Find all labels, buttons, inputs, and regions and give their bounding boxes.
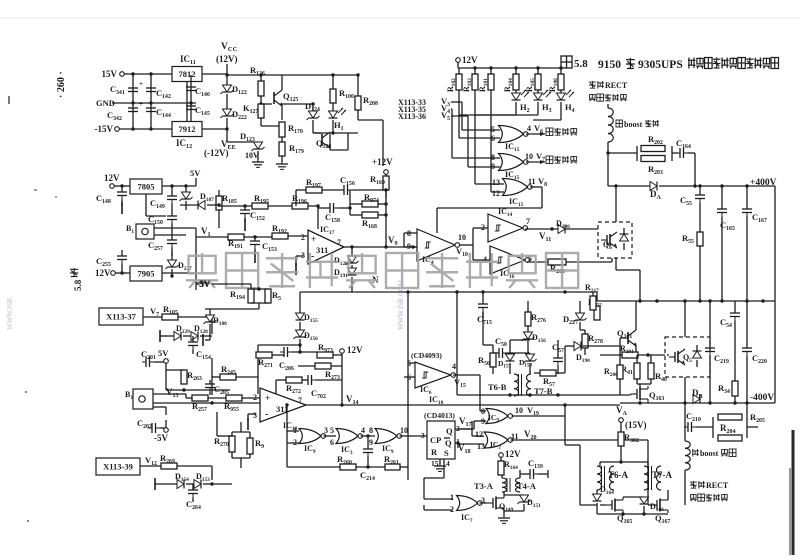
wire (597, 512, 668, 515)
gate IC15a (491, 123, 545, 143)
capacitor C164 (676, 138, 695, 186)
wire (258, 343, 302, 352)
resistor R206b (604, 346, 623, 395)
wire (244, 235, 272, 238)
inverter IC4 (404, 229, 468, 266)
svg-text:311: 311 (316, 245, 328, 255)
resistor R168 (350, 212, 386, 230)
wire (119, 127, 172, 130)
gate IC7 (450, 493, 487, 524)
transistor Q161 (617, 301, 637, 352)
wire (153, 406, 166, 408)
label 整流桥正极 (589, 94, 627, 101)
wire (407, 292, 409, 480)
resistor R191 (228, 234, 244, 250)
gate IC3 (330, 426, 375, 456)
title text (598, 58, 778, 72)
led H2 (512, 90, 530, 115)
wire (258, 358, 276, 394)
svg-text:7905: 7905 (138, 269, 155, 279)
svg-text:+400V: +400V (750, 178, 777, 188)
net VEE (204, 129, 259, 160)
inverter IC6 (404, 359, 466, 396)
capacitor C206 (279, 347, 317, 372)
wire (475, 114, 538, 116)
resistor R269 (160, 453, 212, 480)
label IC18 (283, 421, 298, 432)
wire (202, 73, 229, 76)
svg-text:-15V: -15V (95, 124, 114, 134)
svg-text:8: 8 (491, 153, 495, 162)
wire (154, 228, 196, 235)
wire (483, 312, 530, 347)
svg-text:9305UPS: 9305UPS (638, 59, 683, 71)
svg-text:15V: 15V (102, 69, 118, 79)
terminal 12V c (340, 345, 363, 355)
resistor R34 (718, 330, 738, 403)
gate IC9a (293, 426, 336, 455)
capacitor C148 (96, 186, 127, 214)
diode D157 (498, 346, 515, 374)
capacitor C142 (146, 74, 171, 129)
resistor R270 (214, 436, 235, 452)
svg-text:RECT: RECT (605, 81, 628, 90)
capacitor C341 (110, 74, 143, 129)
transformer T6-A (597, 466, 629, 490)
svg-text:T6-A: T6-A (608, 470, 629, 480)
wire (459, 90, 500, 138)
capacitor C205 (205, 380, 229, 396)
wire (186, 82, 188, 121)
capacitor C54 (720, 301, 740, 330)
wire (217, 412, 232, 436)
wire (288, 235, 308, 237)
svg-text:+: + (311, 234, 316, 244)
resistor R55 (682, 232, 703, 303)
wire (614, 184, 617, 222)
wire (285, 403, 299, 467)
svg-text:(12V): (12V) (216, 54, 238, 64)
transformer T7-A (644, 466, 673, 490)
wire (600, 338, 628, 346)
svg-text:10: 10 (400, 426, 408, 435)
svg-text:7: 7 (526, 217, 530, 226)
wire (491, 90, 504, 192)
resistor R127 (243, 96, 264, 126)
capacitor C165 (717, 186, 735, 301)
net 5V b (158, 348, 169, 390)
diode D130 (556, 219, 570, 234)
svg-text:3: 3 (253, 411, 257, 420)
svg-text:CP: CP (430, 435, 441, 445)
resistor R105b (162, 304, 212, 334)
node X113-33 (398, 96, 500, 130)
svg-text:5: 5 (330, 426, 334, 435)
resistor R164 (498, 460, 518, 475)
wire (344, 245, 417, 248)
resistor R273 (298, 363, 342, 381)
net V14 (346, 394, 359, 406)
resistor R302 (618, 432, 639, 462)
wire (207, 203, 221, 206)
label IC15b (505, 170, 520, 181)
gate IC15b (491, 151, 545, 171)
wire (459, 228, 490, 260)
label IC15a (505, 142, 520, 153)
net +12V (372, 157, 393, 176)
svg-text:S: S (444, 448, 449, 458)
capacitor C154 (188, 336, 211, 361)
capacitor C144 (146, 104, 171, 119)
capacitor C702 (304, 366, 342, 400)
net V20 (524, 429, 537, 441)
svg-text:+: + (139, 100, 143, 108)
resistor R194 (230, 289, 254, 303)
label CD4013 (424, 411, 455, 420)
wire (600, 460, 648, 466)
resistor R257 (186, 395, 226, 413)
capacitor C156 (340, 175, 386, 195)
wire (296, 256, 303, 275)
resistor R260 (287, 454, 385, 470)
label 图5.8 side (70, 268, 83, 291)
diode D128 (183, 324, 212, 341)
gate IC9b (369, 426, 410, 455)
resistor R103 (462, 68, 478, 92)
terminal GND (96, 98, 196, 108)
resistor R101 (478, 68, 494, 92)
mosfet Q149 (487, 495, 514, 523)
resistor R261 (384, 454, 408, 470)
wire (212, 483, 232, 485)
resistor R201 (600, 344, 667, 358)
wire (162, 184, 196, 187)
svg-text:(-12V): (-12V) (204, 148, 229, 158)
wire (607, 104, 609, 108)
inverter IC16 (483, 246, 532, 280)
svg-text:6: 6 (330, 438, 334, 447)
svg-text:(CD4013): (CD4013) (424, 411, 455, 420)
wire (341, 380, 343, 405)
svg-text:12: 12 (492, 189, 500, 198)
svg-text:2: 2 (301, 233, 305, 242)
wire (296, 190, 388, 247)
resistor R203 (641, 156, 665, 176)
capacitor C715 (477, 292, 492, 326)
wire (219, 204, 252, 207)
diode D158 (519, 352, 537, 374)
resistor R206 (548, 258, 612, 275)
wire (774, 186, 776, 403)
resistor R106 (548, 68, 564, 92)
specks (8, 96, 57, 522)
wire (684, 403, 686, 427)
svg-text:-: - (265, 409, 268, 420)
resistor R170 (279, 122, 303, 137)
svg-text:+: + (265, 393, 270, 403)
wire (458, 429, 484, 444)
svg-text:11: 11 (528, 177, 536, 186)
transformer T6-B (488, 374, 531, 396)
net -5V c (196, 279, 251, 289)
op-amp IC17b 311 (253, 388, 306, 422)
wire (124, 72, 193, 75)
capacitor C255 (96, 250, 127, 273)
capacitor C158 (318, 203, 350, 224)
resistor R50 (478, 345, 496, 367)
svg-text:5: 5 (491, 125, 495, 134)
svg-text:10V: 10V (245, 151, 259, 160)
resistor R195 (252, 193, 269, 209)
resistor R974 (350, 192, 386, 207)
wire (475, 90, 504, 184)
wire (437, 187, 542, 233)
pin labels (421, 424, 460, 468)
wire (308, 204, 320, 229)
svg-text:2: 2 (450, 505, 454, 514)
svg-text:T4-A: T4-A (517, 481, 537, 491)
svg-text:Q: Q (446, 426, 453, 436)
svg-text:3: 3 (324, 426, 328, 435)
svg-text:7912: 7912 (179, 124, 196, 134)
net -5V (196, 279, 211, 289)
zener D122 (221, 75, 247, 109)
resistor R202 (641, 134, 665, 152)
mosfet Q165 (600, 497, 632, 525)
wire (596, 292, 598, 301)
diode D187 (180, 192, 214, 210)
regulator IC11 7812 (172, 54, 202, 82)
zener D123 (227, 131, 265, 167)
svg-text:12V: 12V (104, 173, 120, 183)
capacitor C210 (684, 411, 713, 432)
wire (533, 112, 561, 120)
wire (456, 292, 458, 395)
diode D153 (186, 472, 214, 489)
diode D120 (334, 247, 359, 267)
label T7-B (534, 386, 553, 396)
resistor R197 (296, 177, 344, 193)
ground (155, 478, 177, 490)
resistor R277 (588, 298, 602, 320)
svg-text:12V: 12V (505, 449, 521, 459)
resistor R57 (534, 370, 565, 388)
wire (672, 152, 678, 154)
svg-text:10: 10 (525, 152, 533, 161)
label 正充电器 (540, 128, 577, 136)
svg-text:WWW.JSR.COM: WWW.JSR.COM (397, 279, 405, 330)
svg-text:12: 12 (475, 430, 483, 439)
svg-text:boost: boost (624, 120, 643, 129)
label +400V (750, 178, 777, 188)
net V17 (455, 416, 472, 429)
page number (56, 71, 67, 98)
gate IC15c (492, 176, 547, 198)
svg-text:5.8: 5.8 (73, 279, 83, 291)
svg-text:9: 9 (491, 162, 495, 171)
net V18 (455, 441, 471, 455)
wire (300, 290, 597, 293)
sensor B1 (126, 224, 154, 239)
capacitor C145 (186, 102, 210, 117)
wire (227, 75, 358, 135)
resistor R276 (525, 301, 546, 332)
wire (162, 228, 196, 290)
svg-text:7: 7 (337, 238, 341, 247)
zener D222 (221, 109, 247, 129)
svg-text:5V: 5V (190, 168, 201, 178)
svg-text:4: 4 (446, 459, 450, 468)
svg-text:12V: 12V (95, 268, 111, 278)
label CD4093 (411, 351, 442, 360)
label 来自RECT b (690, 481, 729, 490)
inverter IC14 (481, 207, 530, 242)
regulator IC12 7912 (172, 122, 202, 151)
wire (457, 393, 630, 396)
svg-text:R: R (431, 447, 438, 457)
resistor R100 (330, 73, 354, 103)
resistor R40 (637, 355, 667, 384)
svg-text:1: 1 (450, 493, 454, 502)
capacitor C57 (552, 342, 564, 374)
svg-text:RECT: RECT (706, 481, 729, 490)
resistor R973 (317, 342, 342, 366)
capacitor C201 (141, 349, 166, 367)
svg-text:12V: 12V (347, 345, 363, 355)
diode D227b (166, 252, 193, 278)
diode D166 (623, 497, 664, 514)
scan edge (789, 430, 795, 555)
wire (306, 403, 620, 406)
node X113-37 (99, 306, 162, 325)
watermark (186, 253, 578, 288)
capacitor C342 (107, 100, 143, 122)
svg-text:WWW.JSR: WWW.JSR (6, 297, 14, 330)
svg-text:2: 2 (253, 393, 257, 402)
diode D164 (593, 485, 615, 514)
svg-text:X113-39: X113-39 (103, 462, 133, 472)
svg-text:7805: 7805 (138, 182, 155, 192)
node X113-39 (96, 455, 161, 475)
diode D154 (175, 472, 189, 489)
capacitor C264 (186, 484, 201, 511)
wire (282, 102, 315, 105)
diode D129 (174, 324, 190, 341)
inductor 正boost (608, 108, 659, 142)
terminal 12V (104, 173, 130, 188)
diode DB (692, 388, 703, 404)
wire (146, 194, 166, 216)
zener D151 (504, 495, 541, 511)
capacitor C150 (148, 212, 177, 240)
wire (166, 388, 230, 391)
resistor R272 (276, 377, 308, 395)
wire (620, 401, 775, 404)
svg-text:boost: boost (700, 449, 719, 458)
svg-text:5.8: 5.8 (574, 58, 588, 70)
led H1 (329, 103, 347, 133)
regulator 7905 (130, 266, 162, 281)
label 负充电器 (540, 156, 577, 164)
svg-text:7: 7 (298, 396, 302, 405)
svg-text:8: 8 (369, 426, 373, 435)
wire (525, 227, 600, 230)
svg-text:4: 4 (361, 426, 365, 435)
terminal 12V b (95, 268, 130, 278)
resistor R204 pair (713, 414, 758, 441)
svg-text:4: 4 (452, 362, 456, 371)
inductor 负boost (685, 427, 690, 505)
wire (647, 440, 649, 490)
flip-flop IC10 CD4013 (427, 395, 455, 459)
igbt Q5 dashed (665, 337, 710, 377)
label 图5.8 (561, 56, 588, 70)
svg-text:+12V: +12V (372, 157, 393, 167)
resistor R9 (232, 422, 264, 468)
wire (202, 127, 229, 130)
svg-text:2: 2 (481, 223, 485, 232)
net V1 (196, 226, 228, 238)
net 5V (180, 168, 202, 210)
led H3 (534, 90, 552, 115)
resistor R179 (279, 137, 304, 162)
resistor R192 (272, 223, 288, 239)
svg-text:X113-37: X113-37 (106, 312, 137, 322)
gate IC2 (475, 430, 648, 451)
op-amp IC17 311 (301, 225, 344, 264)
diode D191 (334, 265, 357, 292)
svg-text:+: + (139, 80, 143, 88)
wire (608, 146, 672, 161)
resistor R126 (250, 65, 265, 96)
resistor R104 (503, 68, 519, 92)
svg-text:(CD4093): (CD4093) (411, 351, 442, 360)
mosfet Q167 (648, 490, 670, 525)
svg-text:6: 6 (491, 134, 495, 143)
wire (709, 301, 711, 348)
wire (453, 375, 486, 411)
transistor Q125 (261, 75, 298, 120)
diode D155 (296, 313, 319, 330)
ground (434, 459, 446, 471)
transistor Q126 (313, 132, 331, 150)
svg-text:12V: 12V (462, 55, 478, 65)
wire (153, 394, 260, 405)
zener D156b (522, 332, 547, 352)
terminal 12V d (499, 449, 521, 461)
zener D124 (305, 101, 320, 133)
capacitor C220 (742, 301, 767, 403)
label IC15c (509, 197, 524, 208)
capacitor C139 (520, 458, 548, 479)
watermark blue (6, 279, 405, 330)
label 整流桥负极 (690, 494, 728, 501)
svg-text:9150: 9150 (598, 59, 621, 71)
resistor R255 (224, 395, 260, 413)
svg-text:8: 8 (481, 407, 485, 416)
wire (330, 110, 383, 166)
mosfet Q163 (630, 384, 664, 403)
svg-text:13: 13 (492, 178, 500, 187)
svg-text:-400V: -400V (750, 393, 774, 403)
regulator 7805 (130, 179, 162, 194)
wire (684, 301, 686, 403)
svg-text:10: 10 (458, 233, 466, 242)
wire (299, 292, 301, 313)
capacitor C55 (680, 186, 705, 232)
svg-text:T6-B: T6-B (488, 382, 507, 392)
node X113-35 (398, 103, 500, 158)
